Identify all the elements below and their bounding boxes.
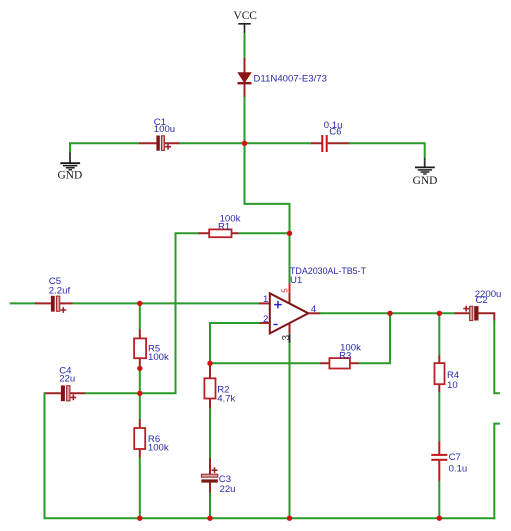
capacitor C5: [51, 296, 66, 313]
diode D1 cathode lead: [244, 83, 246, 97]
junction pin2/R2/R3: [207, 361, 212, 366]
resistor R1: [209, 229, 231, 237]
wire C4 left down to ground rail: [45, 392, 496, 518]
capacitor C4: [61, 385, 76, 401]
capacitor C1: [156, 136, 171, 151]
wire R1 left branch: [176, 233, 199, 393]
svg-text:VCC: VCC: [233, 10, 256, 22]
resistor R3: [329, 358, 350, 368]
wire R2 to C3: [209, 408, 211, 458]
label C3 / 22u: [219, 474, 236, 495]
resistor R5: [134, 338, 146, 358]
capacitor C2 leads: [455, 312, 496, 320]
label R2 / 4.7k: [217, 384, 235, 404]
svg-text:5: 5: [281, 288, 290, 293]
ground GND right: [413, 158, 438, 187]
wire VCC to diode: [244, 33, 246, 59]
svg-text:22u: 22u: [59, 374, 75, 385]
resistor R4: [435, 363, 445, 384]
capacitor C3 leads: [209, 458, 211, 493]
junction R5 bottom: [137, 366, 142, 371]
wire C7 to ground rail: [438, 481, 440, 520]
svg-text:R3: R3: [339, 351, 351, 362]
junction rail pin3: [287, 516, 292, 521]
junction R1/pin5: [287, 231, 292, 236]
wire lower terminal down to ground rail: [494, 424, 500, 520]
op-amp U1: [270, 293, 309, 333]
resistor R5 leads: [139, 329, 141, 366]
op-amp U1 pin5 lead: [289, 284, 291, 293]
resistor R3 leads: [321, 362, 360, 364]
wire GND-left to C1: [70, 143, 140, 153]
junction output/R3: [387, 311, 392, 316]
label R6 / 100k: [148, 434, 169, 454]
svg-text:100k: 100k: [148, 443, 169, 454]
resistor R6: [134, 428, 145, 449]
junction input/R5: [137, 301, 142, 306]
label C4 / 22u: [59, 366, 75, 385]
ground GND left: [58, 153, 83, 182]
svg-text:GND: GND: [413, 175, 438, 187]
wire main vertical to R1/pin5 column: [245, 142, 290, 283]
svg-text:1: 1: [263, 294, 268, 305]
junction rail C7: [437, 516, 442, 521]
junction R5 top (input node) column: [139, 302, 141, 329]
capacitor C4 leads: [45, 392, 86, 394]
wire input row: [10, 302, 36, 304]
diode D1 anode lead: [244, 58, 246, 74]
wire R4 to C7: [438, 392, 440, 442]
svg-text:R1: R1: [218, 222, 230, 233]
svg-text:U1: U1: [290, 275, 302, 286]
svg-text:22u: 22u: [220, 484, 236, 495]
resistor R2 leads: [209, 362, 211, 408]
svg-text:4.7k: 4.7k: [217, 394, 235, 405]
resistor R2: [204, 378, 215, 398]
wire R6 bottom to ground rail: [139, 457, 141, 519]
capacitor C6 leads: [311, 142, 349, 144]
junction output/R4: [437, 311, 442, 316]
label 100k / R1: [218, 213, 241, 232]
resistor R4 leads: [438, 356, 440, 393]
label 100k / R3: [339, 343, 361, 362]
op-amp U1 pin1 lead: [259, 302, 270, 304]
label 2200u / C2: [475, 289, 502, 306]
wire pin3 down to ground rail: [289, 343, 291, 519]
svg-text:C7: C7: [449, 452, 461, 463]
capacitor C1 leads: [139, 142, 180, 144]
wire output row: [320, 312, 455, 314]
wire C3 to ground rail: [209, 493, 211, 520]
svg-text:GND: GND: [58, 170, 83, 182]
label 0.1u / C6: [324, 120, 343, 137]
svg-text:4: 4: [311, 304, 317, 315]
capacitor C7: [431, 454, 447, 461]
op-amp U1 pin4 lead: [308, 312, 320, 314]
svg-text:D11N4007-E3/73: D11N4007-E3/73: [254, 74, 327, 85]
junction main rail: [242, 141, 247, 146]
label TDA2030AL-TB5-T / U1: [290, 266, 366, 286]
op-amp U1 pin3 lead: [289, 324, 291, 334]
svg-text:2.2uf: 2.2uf: [49, 285, 71, 296]
wire R3 node row: [209, 362, 321, 364]
svg-text:C2: C2: [476, 295, 488, 306]
wire C5 to op-amp pin1: [73, 302, 260, 304]
wire pin2 branch down to R2/R3 node: [210, 323, 260, 362]
junction rail R6: [137, 516, 142, 521]
svg-text:0.1u: 0.1u: [449, 464, 468, 475]
op-amp U1 pin2 lead: [259, 322, 270, 324]
wire diode to junction: [244, 97, 246, 144]
wire R3 right up to output: [359, 313, 390, 363]
capacitor C5 leads: [35, 302, 73, 304]
svg-text:C6: C6: [329, 126, 341, 137]
label C5 / 2.2uf: [49, 276, 71, 296]
resistor R6 leads: [139, 419, 141, 458]
wire C1 to junction to C6: [179, 142, 311, 144]
wire R6 column top: [139, 392, 141, 419]
label C1 / 100u: [154, 117, 175, 135]
capacitor C6: [321, 135, 327, 152]
wire R5 bottom to bias node: [139, 365, 141, 394]
junction bias node: [137, 391, 142, 396]
wire C4 right to bias node and R1 column: [85, 392, 177, 394]
svg-text:100k: 100k: [148, 352, 169, 363]
wire R1 right to junction: [238, 232, 290, 234]
label C7 / 0.1u: [449, 452, 468, 474]
wire C6 to GND-right: [349, 143, 425, 158]
wire C2 down right side to upper terminal: [494, 320, 500, 393]
capacitor C2: [463, 306, 478, 321]
resistor R1 leads: [198, 232, 239, 234]
svg-text:2: 2: [263, 314, 268, 325]
label R4 / 10: [447, 370, 460, 391]
junction rail C3: [207, 516, 212, 521]
capacitor C7 leads: [438, 442, 440, 482]
svg-text:10: 10: [447, 380, 458, 391]
svg-text:3: 3: [281, 335, 292, 341]
capacitor C3: [201, 467, 217, 482]
label R5 / 100k: [148, 344, 169, 363]
VCC power symbol: [233, 10, 256, 33]
diode D1: [238, 73, 252, 83]
wire R4 branch from output: [438, 312, 440, 356]
svg-text:100u: 100u: [154, 124, 175, 135]
